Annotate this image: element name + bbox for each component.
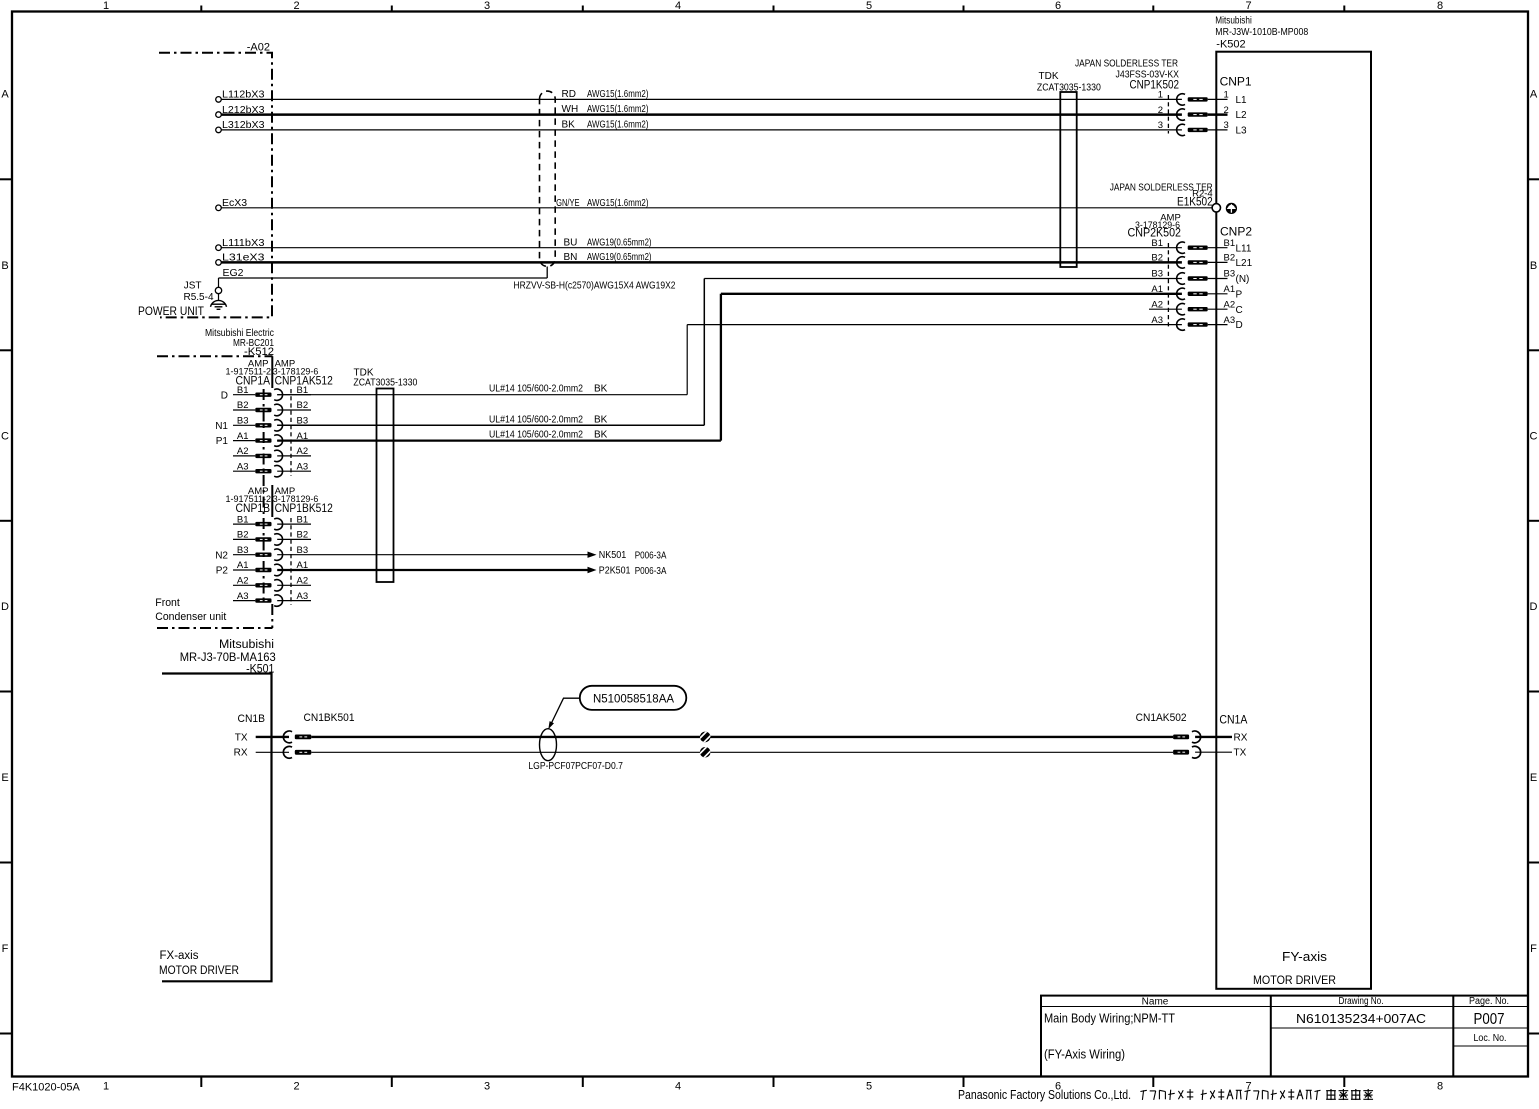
svg-text:BK: BK bbox=[594, 384, 608, 395]
svg-text:CNP2: CNP2 bbox=[1220, 225, 1252, 239]
svg-text:TX: TX bbox=[235, 732, 248, 743]
svg-text:L31eX3: L31eX3 bbox=[222, 252, 265, 264]
svg-text:B2: B2 bbox=[297, 530, 309, 541]
svg-text:B1: B1 bbox=[297, 514, 309, 525]
svg-text:A2: A2 bbox=[237, 446, 249, 457]
svg-text:AWG19(0.65mm2): AWG19(0.65mm2) bbox=[587, 237, 652, 248]
svg-text:BK: BK bbox=[562, 120, 576, 131]
svg-text:(N): (N) bbox=[1236, 274, 1250, 285]
svg-text:CNP1BK512: CNP1BK512 bbox=[275, 501, 333, 515]
svg-text:AWG15(1.6mm2): AWG15(1.6mm2) bbox=[587, 89, 649, 100]
svg-text:Loc. No.: Loc. No. bbox=[1474, 1033, 1507, 1044]
svg-text:UL#14 105/600-2.0mm2: UL#14 105/600-2.0mm2 bbox=[489, 384, 583, 395]
svg-text:ZCAT3035-1330: ZCAT3035-1330 bbox=[353, 378, 417, 389]
svg-text:L111bX3: L111bX3 bbox=[222, 237, 265, 249]
svg-text:AWG15(1.6mm2): AWG15(1.6mm2) bbox=[587, 120, 649, 131]
svg-text:A1: A1 bbox=[1224, 284, 1236, 295]
svg-text:D: D bbox=[221, 390, 228, 401]
svg-text:MOTOR DRIVER: MOTOR DRIVER bbox=[159, 965, 239, 977]
svg-text:A3: A3 bbox=[237, 591, 249, 602]
svg-text:N2: N2 bbox=[215, 550, 228, 561]
svg-text:8: 8 bbox=[1437, 1081, 1443, 1093]
svg-text:D: D bbox=[1, 601, 9, 613]
svg-text:6: 6 bbox=[1055, 0, 1061, 12]
svg-text:B: B bbox=[1530, 260, 1537, 272]
svg-text:CNP1: CNP1 bbox=[1220, 75, 1252, 89]
svg-text:CNP1A: CNP1A bbox=[236, 374, 271, 388]
svg-text:2: 2 bbox=[1158, 105, 1163, 116]
svg-text:1: 1 bbox=[103, 0, 109, 12]
svg-text:P: P bbox=[1236, 289, 1243, 300]
svg-text:A1: A1 bbox=[237, 560, 249, 571]
svg-text:A3: A3 bbox=[297, 591, 309, 602]
svg-text:-K502: -K502 bbox=[1216, 39, 1245, 51]
svg-text:EG2: EG2 bbox=[223, 267, 244, 279]
svg-text:RD: RD bbox=[562, 89, 576, 100]
svg-text:GN/YE: GN/YE bbox=[556, 198, 580, 209]
svg-text:UL#14 105/600-2.0mm2: UL#14 105/600-2.0mm2 bbox=[489, 430, 583, 441]
svg-text:A3: A3 bbox=[237, 461, 249, 472]
svg-text:Panasonic Factory Solutions Co: Panasonic Factory Solutions Co.,Ltd. bbox=[958, 1087, 1131, 1102]
svg-text:B2: B2 bbox=[237, 530, 249, 541]
svg-text:C: C bbox=[1, 431, 9, 443]
svg-text:RX: RX bbox=[234, 748, 248, 759]
svg-text:-A02: -A02 bbox=[247, 42, 270, 54]
svg-text:5: 5 bbox=[866, 0, 872, 12]
svg-text:Condenser unit: Condenser unit bbox=[155, 611, 226, 623]
svg-text:B3: B3 bbox=[1224, 269, 1236, 280]
svg-text:N1: N1 bbox=[215, 421, 228, 432]
svg-text:A2: A2 bbox=[237, 576, 249, 587]
svg-text:CNP1B: CNP1B bbox=[236, 501, 271, 515]
svg-text:Name: Name bbox=[1142, 996, 1169, 1007]
svg-text:BU: BU bbox=[564, 237, 578, 248]
svg-text:E1K502: E1K502 bbox=[1177, 195, 1213, 209]
svg-text:4: 4 bbox=[675, 1081, 681, 1093]
svg-text:P006-3A: P006-3A bbox=[635, 566, 667, 577]
svg-text:3: 3 bbox=[484, 1081, 490, 1093]
svg-text:CN1BK501: CN1BK501 bbox=[304, 712, 355, 724]
svg-text:CNP1AK512: CNP1AK512 bbox=[275, 374, 333, 388]
svg-text:BK: BK bbox=[594, 414, 608, 425]
svg-text:A1: A1 bbox=[297, 431, 309, 442]
svg-text:LGP-PCF07PCF07-D0.7: LGP-PCF07PCF07-D0.7 bbox=[528, 760, 623, 772]
svg-text:ZCAT3035-1330: ZCAT3035-1330 bbox=[1037, 83, 1101, 94]
svg-text:L312bX3: L312bX3 bbox=[222, 119, 265, 131]
svg-text:A1: A1 bbox=[237, 431, 249, 442]
svg-text:WH: WH bbox=[562, 104, 579, 115]
svg-text:TDK: TDK bbox=[1039, 71, 1059, 82]
svg-text:AWG15(1.6mm2): AWG15(1.6mm2) bbox=[587, 104, 649, 115]
svg-text:2: 2 bbox=[293, 1081, 299, 1093]
svg-text:A3: A3 bbox=[297, 461, 309, 472]
svg-text:L11: L11 bbox=[1236, 243, 1252, 254]
svg-text:B: B bbox=[1, 260, 8, 272]
svg-text:B2: B2 bbox=[297, 400, 309, 411]
svg-text:A2: A2 bbox=[297, 446, 309, 457]
svg-text:Front: Front bbox=[155, 597, 180, 609]
svg-text:P007: P007 bbox=[1474, 1011, 1505, 1028]
svg-text:AWG19(0.65mm2): AWG19(0.65mm2) bbox=[587, 252, 652, 263]
svg-text:B3: B3 bbox=[297, 545, 309, 556]
svg-text:B2: B2 bbox=[237, 400, 249, 411]
svg-text:F: F bbox=[2, 943, 9, 955]
svg-text:L21: L21 bbox=[1236, 258, 1253, 269]
svg-text:Drawing No.: Drawing No. bbox=[1339, 996, 1384, 1007]
svg-text:B2: B2 bbox=[1151, 253, 1163, 264]
svg-text:AWG15(1.6mm2): AWG15(1.6mm2) bbox=[587, 198, 649, 209]
svg-text:A2: A2 bbox=[1224, 299, 1236, 310]
svg-text:3: 3 bbox=[1158, 120, 1163, 131]
svg-text:B1: B1 bbox=[1151, 238, 1163, 249]
svg-text:L212bX3: L212bX3 bbox=[222, 104, 265, 116]
svg-text:1: 1 bbox=[103, 1081, 109, 1093]
svg-text:BK: BK bbox=[594, 430, 608, 441]
svg-text:P2: P2 bbox=[216, 566, 229, 577]
svg-text:JST: JST bbox=[184, 281, 202, 292]
svg-text:R5.5-4: R5.5-4 bbox=[183, 292, 213, 303]
svg-text:A2: A2 bbox=[297, 576, 309, 587]
svg-text:A1: A1 bbox=[297, 560, 309, 571]
svg-text:L1: L1 bbox=[1236, 95, 1248, 106]
svg-text:Mitsubishi: Mitsubishi bbox=[219, 639, 274, 651]
svg-text:-K512: -K512 bbox=[244, 346, 274, 358]
svg-text:2: 2 bbox=[293, 0, 299, 12]
svg-text:TX: TX bbox=[1234, 748, 1247, 759]
svg-text:5: 5 bbox=[866, 1081, 872, 1093]
svg-text:Main Body Wiring;NPM-TT: Main Body Wiring;NPM-TT bbox=[1044, 1011, 1175, 1026]
svg-text:POWER UNIT: POWER UNIT bbox=[138, 306, 204, 318]
svg-text:B1: B1 bbox=[237, 514, 249, 525]
svg-text:L2: L2 bbox=[1236, 110, 1248, 121]
svg-text:EcX3: EcX3 bbox=[222, 197, 247, 209]
svg-text:C: C bbox=[1530, 431, 1538, 443]
svg-text:(FY-Axis Wiring): (FY-Axis Wiring) bbox=[1044, 1048, 1125, 1062]
svg-text:E: E bbox=[1, 772, 8, 784]
svg-text:CN1B: CN1B bbox=[238, 713, 266, 725]
svg-text:NK501: NK501 bbox=[599, 550, 627, 561]
svg-text:L3: L3 bbox=[1236, 126, 1248, 137]
svg-text:D: D bbox=[1530, 601, 1538, 613]
svg-text:UL#14 105/600-2.0mm2: UL#14 105/600-2.0mm2 bbox=[489, 414, 583, 425]
svg-text:-K501: -K501 bbox=[246, 664, 274, 676]
svg-text:2: 2 bbox=[1224, 105, 1229, 116]
svg-text:CN1A: CN1A bbox=[1219, 713, 1247, 727]
svg-text:1: 1 bbox=[1224, 90, 1229, 101]
svg-text:E: E bbox=[1530, 772, 1537, 784]
svg-text:RX: RX bbox=[1234, 732, 1248, 743]
svg-text:P1: P1 bbox=[216, 436, 229, 447]
svg-text:C: C bbox=[1236, 305, 1243, 316]
svg-text:7: 7 bbox=[1245, 0, 1251, 12]
svg-text:A: A bbox=[1, 89, 9, 101]
svg-text:BN: BN bbox=[564, 252, 578, 263]
svg-text:HRZVV-SB-H(c2570)AWG15X4 AWG19: HRZVV-SB-H(c2570)AWG15X4 AWG19X2 bbox=[514, 280, 676, 292]
svg-text:A3: A3 bbox=[1224, 315, 1236, 326]
svg-text:N510058518AA: N510058518AA bbox=[593, 693, 674, 705]
svg-text:MR-J3-70B-MA163: MR-J3-70B-MA163 bbox=[180, 652, 276, 664]
svg-text:4: 4 bbox=[675, 0, 681, 12]
svg-text:MR-J3W-1010B-MP008: MR-J3W-1010B-MP008 bbox=[1215, 27, 1308, 38]
svg-text:FY-axis: FY-axis bbox=[1282, 950, 1327, 964]
svg-text:P006-3A: P006-3A bbox=[635, 551, 667, 562]
svg-text:B1: B1 bbox=[1224, 238, 1236, 249]
svg-text:B3: B3 bbox=[297, 416, 309, 427]
svg-text:CNP1K502: CNP1K502 bbox=[1130, 78, 1180, 92]
svg-text:F4K1020-05A: F4K1020-05A bbox=[12, 1082, 81, 1094]
svg-text:FX-axis: FX-axis bbox=[160, 950, 199, 962]
svg-text:Mitsubishi: Mitsubishi bbox=[1215, 16, 1252, 27]
svg-text:P2K501: P2K501 bbox=[599, 565, 631, 576]
svg-text:N610135234+007AC: N610135234+007AC bbox=[1296, 1012, 1426, 1026]
svg-text:MOTOR DRIVER: MOTOR DRIVER bbox=[1253, 973, 1336, 987]
svg-text:F: F bbox=[1530, 943, 1537, 955]
svg-text:B2: B2 bbox=[1224, 253, 1236, 264]
svg-text:CN1AK502: CN1AK502 bbox=[1136, 712, 1187, 724]
svg-text:8: 8 bbox=[1437, 0, 1443, 12]
svg-text:D: D bbox=[1236, 320, 1243, 331]
svg-text:3: 3 bbox=[1224, 120, 1229, 131]
svg-text:A: A bbox=[1530, 89, 1538, 101]
svg-text:Page. No.: Page. No. bbox=[1469, 996, 1509, 1007]
svg-text:3: 3 bbox=[484, 0, 490, 12]
svg-text:JAPAN SOLDERLESS TER: JAPAN SOLDERLESS TER bbox=[1075, 59, 1178, 70]
svg-text:B3: B3 bbox=[237, 416, 249, 427]
svg-text:L112bX3: L112bX3 bbox=[222, 89, 265, 101]
svg-text:B3: B3 bbox=[237, 545, 249, 556]
